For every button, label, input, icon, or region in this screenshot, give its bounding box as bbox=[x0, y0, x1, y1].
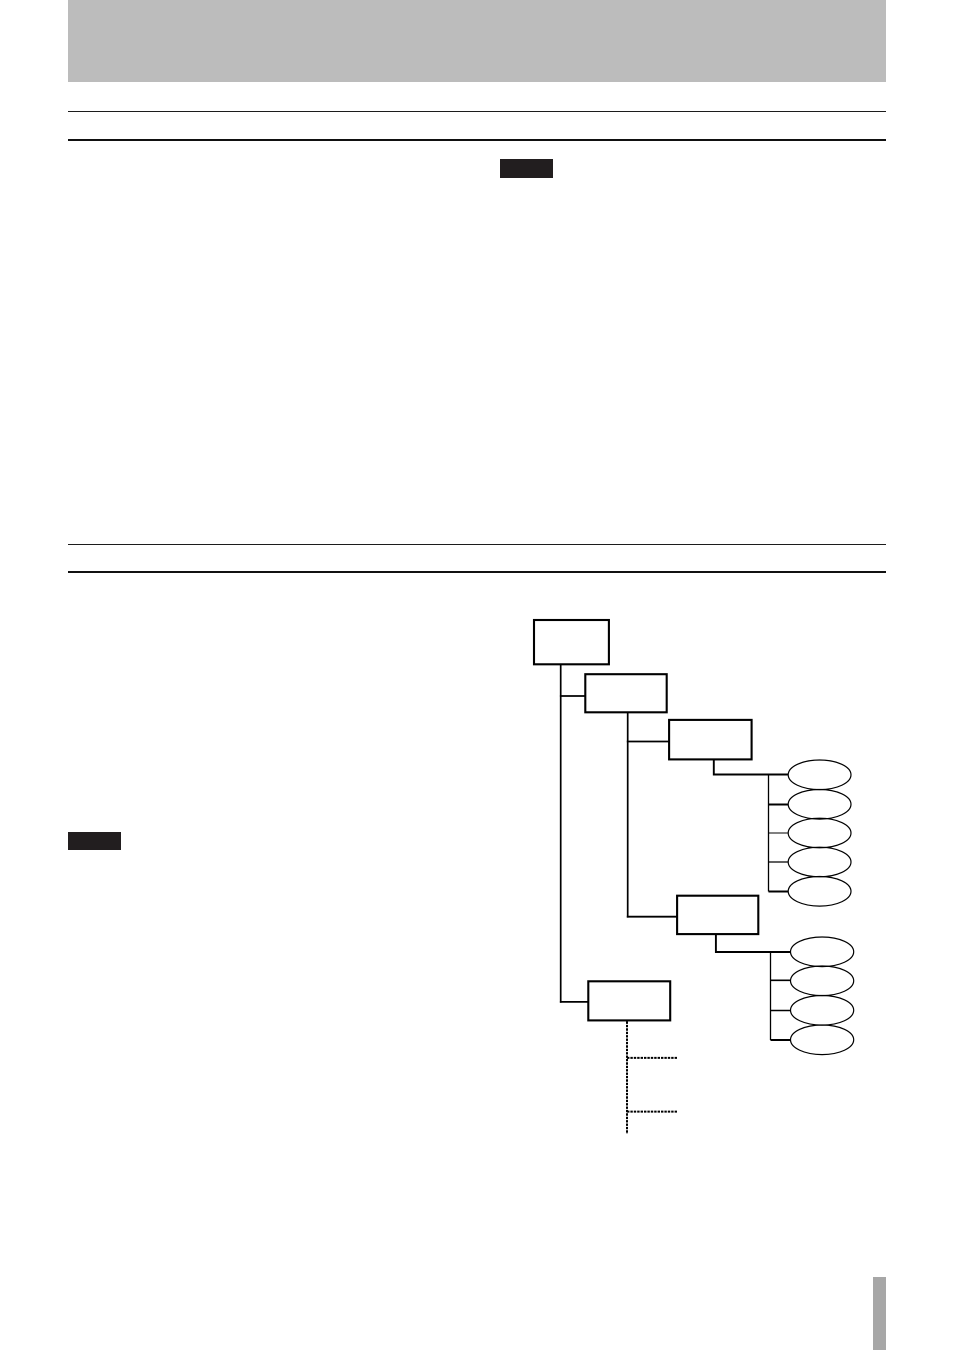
box1 (root) bbox=[534, 620, 609, 664]
wire: riser group2 bbox=[770, 952, 772, 1040]
box3 bbox=[669, 720, 752, 760]
oval 2-1 bbox=[791, 937, 854, 967]
wire: stub to oval 2-2 bbox=[771, 979, 791, 981]
thick rule 2 bbox=[68, 571, 886, 573]
oval 2-4 bbox=[791, 1025, 854, 1055]
thick rule 1 bbox=[68, 139, 886, 141]
oval 1-3 bbox=[788, 818, 851, 848]
header gray band bbox=[68, 0, 886, 82]
oval 2-2 bbox=[791, 966, 854, 996]
oval 1-4 bbox=[788, 847, 851, 877]
wire: riser group1 bbox=[768, 775, 770, 892]
wire: stub to oval 1-4 bbox=[769, 861, 789, 863]
wire: trunk2 from box2 down bbox=[627, 712, 629, 918]
wire: stub trunk to box5 bbox=[560, 1001, 588, 1003]
box5 bbox=[588, 981, 670, 1020]
wire: dotted branch 2 bbox=[627, 1111, 678, 1113]
black badge 2 bbox=[68, 832, 122, 850]
wire: stub to oval 1-3 bbox=[769, 832, 789, 834]
wire: trunk from box1 down bbox=[560, 664, 562, 1003]
wire: stub trunk2 to box4 bbox=[627, 916, 677, 918]
box4 bbox=[677, 896, 758, 934]
thin rule 2 bbox=[68, 544, 886, 545]
box2 bbox=[585, 674, 666, 712]
wire: dotted drop from box5 bbox=[626, 1022, 628, 1135]
oval 1-2 bbox=[788, 790, 851, 820]
wire: box4 drop bbox=[716, 934, 790, 952]
oval 1-1 bbox=[788, 760, 851, 790]
wire: stub to oval 2-4 bbox=[771, 1039, 791, 1041]
wire: stub to oval 1-5 bbox=[769, 891, 789, 893]
wire: stub trunk2 to box3 bbox=[627, 741, 669, 743]
wire: stub trunk to box2 bbox=[560, 695, 585, 697]
oval 1-5 bbox=[788, 877, 851, 907]
thin rule 1 bbox=[68, 111, 886, 112]
black badge 1 bbox=[500, 159, 553, 178]
wire: box3 drop bbox=[714, 760, 789, 775]
wire: stub to oval 1-2 bbox=[769, 804, 789, 806]
wire: dotted branch 1 bbox=[627, 1057, 678, 1059]
wire: stub to oval 2-3 bbox=[771, 1010, 791, 1012]
oval 2-3 bbox=[791, 996, 854, 1026]
page-edge gray bar bottom right bbox=[873, 1277, 886, 1350]
